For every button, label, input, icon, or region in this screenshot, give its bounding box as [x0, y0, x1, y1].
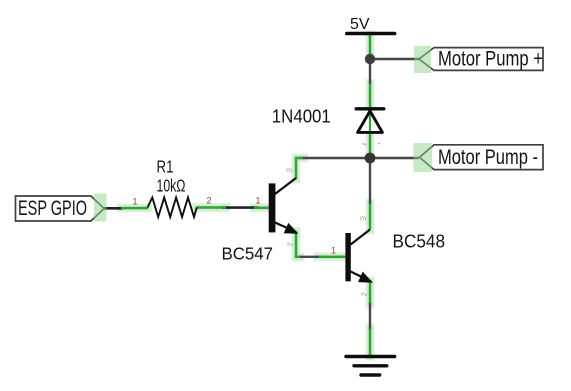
svg-text:5V: 5V — [350, 16, 370, 33]
svg-text:2: 2 — [360, 292, 369, 296]
svg-text:BC548: BC548 — [393, 231, 446, 251]
svg-text:2: 2 — [286, 242, 295, 246]
svg-text:Motor Pump +: Motor Pump + — [438, 47, 543, 70]
svg-text:~: ~ — [362, 139, 367, 149]
svg-text:m: m — [360, 214, 366, 223]
svg-text:R1: R1 — [157, 156, 174, 176]
svg-text:1: 1 — [256, 196, 261, 206]
svg-text:2: 2 — [207, 196, 212, 206]
svg-text:1: 1 — [133, 197, 138, 207]
svg-text:m: m — [286, 166, 292, 175]
svg-text:Motor Pump -: Motor Pump - — [438, 146, 538, 169]
svg-text:-: - — [378, 139, 381, 149]
svg-text:1N4001: 1N4001 — [272, 106, 331, 126]
svg-text:ESP GPIO: ESP GPIO — [18, 197, 87, 220]
svg-text:1: 1 — [331, 246, 336, 256]
svg-text:10kΩ: 10kΩ — [157, 176, 186, 196]
svg-text:BC547: BC547 — [222, 243, 274, 263]
